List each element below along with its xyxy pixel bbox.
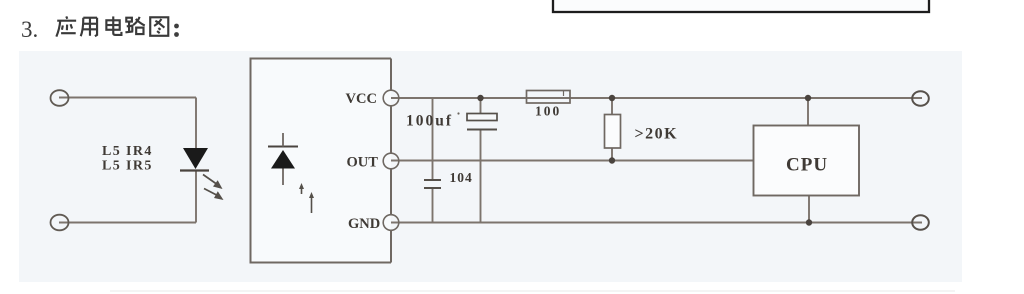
pin OUT circle <box>383 153 399 169</box>
svg-text:OUT: OUT <box>347 154 379 170</box>
terminal top-right <box>912 91 929 106</box>
terminal bottom-right <box>912 215 929 230</box>
svg-text:GND: GND <box>348 216 380 232</box>
wire cap C104 lower lead <box>432 189 434 223</box>
wire electrolytic upper lead <box>480 98 482 113</box>
svg-text:L5 IR5: L5 IR5 <box>102 159 153 174</box>
junction dot CPU/VCC <box>805 95 811 101</box>
wire cap C104 upper lead <box>432 98 434 179</box>
wire bottom-left horizontal <box>59 222 196 224</box>
svg-text:100uf: 100uf <box>406 113 453 130</box>
heading char 电 <box>106 16 121 34</box>
svg-text:100: 100 <box>535 104 561 119</box>
electrolytic cap C1 bottom plate <box>467 129 497 131</box>
capacitor C104 plate 1 <box>424 179 441 181</box>
terminal bottom-left <box>51 215 69 231</box>
svg-text:L5 IR4: L5 IR4 <box>102 144 153 159</box>
junction dot R20K/VCC <box>609 95 615 101</box>
wire top-left horizontal <box>59 97 196 99</box>
wire GND rail <box>389 222 923 224</box>
junction dot electrolytic/VCC <box>477 95 483 101</box>
junction dot CPU/GND <box>806 219 812 225</box>
photodiode incoming arrow 1 <box>299 183 304 194</box>
photodiode D2 triangle <box>271 150 295 169</box>
tick after 100uf <box>457 112 459 114</box>
electrolytic cap C1 top plate (box) <box>467 114 497 121</box>
wire resistor R>20K upper lead <box>611 98 613 115</box>
photodiode incoming arrow 2 <box>309 192 314 213</box>
terminal top-left <box>51 90 69 106</box>
resistor R100 end cap detail <box>563 91 565 96</box>
heading char 路 <box>125 17 144 34</box>
svg-text:104: 104 <box>450 170 473 185</box>
svg-text:VCC: VCC <box>346 91 377 107</box>
wire electrolytic lower lead <box>480 130 482 223</box>
heading char 图 <box>150 17 168 35</box>
table box bottom edge (cropped at top of page) <box>553 0 929 12</box>
CPU box <box>754 126 860 196</box>
heading char 应 <box>56 16 76 36</box>
svg-text:3.: 3. <box>21 17 38 42</box>
faint scan artifact line at bottom <box>110 290 955 292</box>
receiver box right edge segments <box>390 59 392 263</box>
wire left vertical below LED <box>195 170 197 223</box>
svg-text:>20K: >20K <box>635 126 679 143</box>
wire left vertical above LED <box>195 98 197 150</box>
schematic panel background <box>19 51 962 282</box>
wire VCC rail <box>389 97 923 99</box>
junction dot R20K/OUT <box>609 157 615 163</box>
photodiode D2 cathode bar <box>268 145 298 147</box>
pin VCC circle <box>383 90 399 106</box>
svg-text:CPU: CPU <box>786 155 828 176</box>
heading char 用 <box>81 18 97 36</box>
photodiode D2 lead above <box>282 133 284 147</box>
LED D1 emission arrow 1 <box>203 175 223 190</box>
wire resistor R>20K lower lead <box>611 148 613 161</box>
heading fullwidth colon <box>174 24 179 37</box>
LED D1 (emitter) triangle <box>183 148 208 169</box>
receiver module U1 box <box>251 59 392 263</box>
LED D1 cathode bar <box>180 169 209 171</box>
wire CPU vcc lead <box>807 98 809 126</box>
resistor R100 body <box>527 91 571 104</box>
resistor R>20K body <box>605 115 621 149</box>
LED D1 emission arrow 2 <box>204 189 224 201</box>
pin GND circle <box>383 215 399 231</box>
capacitor C104 plate 2 <box>424 187 441 189</box>
wire CPU gnd lead <box>808 196 810 223</box>
photodiode D2 lead below <box>282 169 284 186</box>
wire OUT rail <box>389 160 754 162</box>
